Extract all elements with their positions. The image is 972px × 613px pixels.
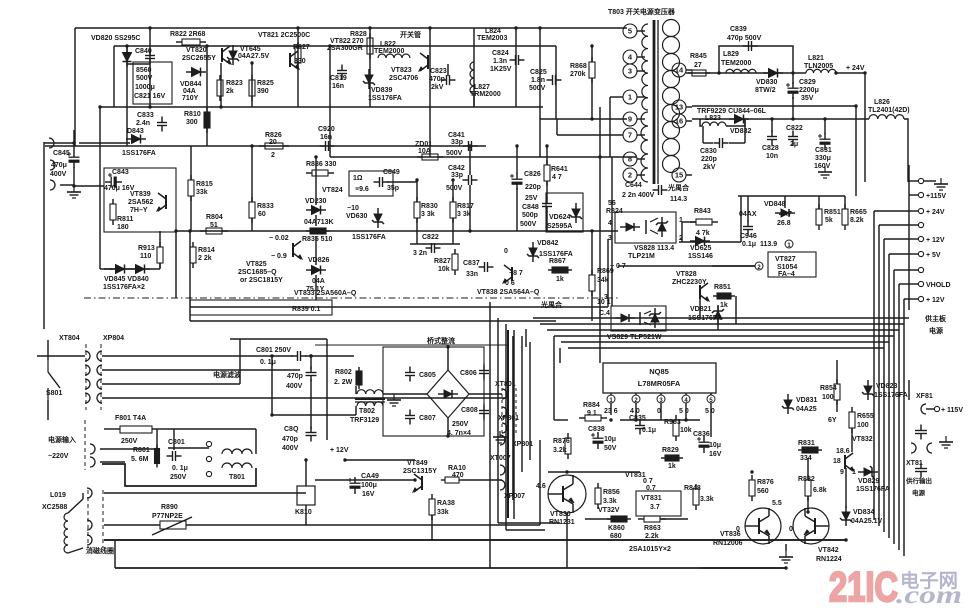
svg-text:T801: T801: [229, 474, 245, 481]
wire: [792, 73, 794, 84]
wire: [554, 419, 568, 421]
wire br v0: [489, 302, 491, 568]
label C826: [524, 171, 541, 202]
label VT831: [641, 495, 662, 511]
wire r851b col: [735, 296, 737, 324]
resistor R826: [259, 143, 289, 149]
svg-text:16n: 16n: [332, 83, 344, 90]
svg-text:04A: 04A: [183, 88, 196, 95]
wire: [818, 196, 820, 209]
choke pins: [206, 441, 211, 476]
svg-text:+ 24V: + 24V: [926, 209, 945, 216]
ground XP801: [493, 431, 507, 443]
wire bus v0: [873, 211, 875, 520]
junction: [854, 104, 857, 107]
label +24V: [846, 65, 865, 72]
label VD624: [547, 214, 572, 230]
svg-text:160V: 160V: [814, 163, 831, 170]
wire bus v2: [883, 239, 885, 532]
wire: [744, 119, 746, 143]
svg-text:500V: 500V: [446, 185, 463, 192]
svg-text:VT825: VT825: [246, 261, 267, 268]
junction: [314, 155, 317, 158]
wire long bottom 540: [104, 539, 846, 541]
wire: [539, 440, 541, 525]
resistor R851r: [816, 204, 822, 230]
svg-text:C805: C805: [419, 372, 436, 379]
transistor VT820: [222, 46, 231, 64]
wire: [159, 231, 161, 247]
svg-text:C821 16V: C821 16V: [134, 93, 165, 100]
capacitor C822b: [426, 243, 441, 253]
capacitor C825: [547, 75, 562, 85]
svg-text:3.2k: 3.2k: [553, 447, 567, 454]
wire 12V: [315, 344, 508, 346]
wire: [591, 291, 593, 321]
label VT827: [775, 256, 797, 278]
resistor R823: [217, 75, 223, 101]
ground C831: [818, 166, 832, 178]
svg-text:C.4: C.4: [599, 310, 610, 317]
capacitor C830: [714, 138, 729, 148]
label VS829: [607, 334, 662, 341]
svg-text:270k: 270k: [570, 71, 586, 78]
capacitor C846: [743, 221, 753, 236]
resistor RA38: [429, 494, 435, 520]
resistor R913: [157, 242, 163, 268]
label VD625: [688, 245, 713, 260]
diode VD839 zener: [363, 69, 375, 89]
wire: [104, 268, 160, 270]
wire bus y119 right: [540, 118, 627, 120]
ground terminal: [924, 178, 948, 190]
bridge diode: [438, 390, 458, 398]
label L826: [868, 99, 910, 114]
svg-text:L821: L821: [808, 55, 824, 62]
svg-text:2SA1015Y×2: 2SA1015Y×2: [629, 546, 671, 553]
label R876c: [757, 479, 774, 495]
svg-text:TEM2000: TEM2000: [374, 48, 404, 55]
wire c843 col: [99, 146, 101, 269]
junction: [823, 117, 826, 120]
label T802: [350, 408, 379, 424]
wire: [516, 188, 518, 231]
label R860: [608, 525, 625, 540]
label VD839: [368, 87, 402, 102]
IC NQ85 pins: [607, 393, 715, 404]
wire: [591, 231, 593, 275]
capacitor C644: [653, 185, 668, 195]
label CA49: [361, 473, 379, 498]
svg-text:VD830: VD830: [756, 79, 778, 86]
resistor R655: [849, 407, 855, 433]
wire: [206, 46, 208, 146]
junction: [72, 184, 75, 187]
label 220V: [48, 453, 69, 460]
svg-text:C644: C644: [625, 182, 642, 189]
transistor VT838: [503, 265, 512, 283]
wire: [555, 46, 557, 119]
transformer T803 pin 14: [672, 63, 692, 77]
junction: [538, 26, 541, 29]
junction: [148, 26, 151, 29]
label VD848 vals: [739, 211, 792, 227]
diode VD840: [130, 265, 150, 274]
wire bus y321: [190, 320, 556, 322]
svg-text:270: 270: [352, 38, 364, 45]
svg-text:VD630: VD630: [346, 213, 368, 220]
svg-text:C801: C801: [168, 439, 185, 446]
svg-text:R884: R884: [583, 402, 600, 409]
wire long bottom: [115, 567, 786, 569]
wire: [297, 28, 299, 107]
transformer T802: [355, 390, 385, 406]
svg-text:1SS176FA: 1SS176FA: [856, 486, 890, 493]
svg-text:0: 0: [789, 526, 793, 533]
junction: [309, 354, 312, 357]
capacitor C824: [510, 55, 525, 65]
capacitor C839: [743, 41, 758, 51]
label R854: [820, 385, 837, 401]
svg-text:− 0.9: − 0.9: [271, 253, 287, 260]
svg-text:180: 180: [117, 224, 129, 231]
label VD826: [306, 257, 330, 293]
diode VD820: [123, 47, 132, 67]
label L822: [374, 41, 404, 55]
wire: [785, 544, 787, 551]
wire: [908, 380, 910, 400]
label R801: [131, 447, 150, 463]
svg-text:RN12006: RN12006: [713, 540, 743, 547]
label vals vt831: [643, 478, 656, 492]
connector mains dashed: [84, 420, 86, 470]
junction: [343, 458, 346, 461]
junction: [250, 61, 253, 64]
label C845: [50, 150, 70, 178]
resistor R822: [176, 39, 206, 45]
svg-text:R890: R890: [161, 504, 178, 511]
wire stair 3: [554, 335, 894, 337]
junction: [148, 105, 151, 108]
svg-text:VT842: VT842: [818, 547, 839, 554]
svg-text:4 0: 4 0: [630, 408, 640, 415]
label VD630 vals: [353, 175, 369, 193]
label C920: [318, 126, 335, 141]
svg-text:T803 开关电源变压器: T803 开关电源变压器: [608, 7, 676, 16]
wire: [611, 157, 613, 306]
wire bus v3: [888, 254, 890, 538]
label L824: [477, 28, 507, 42]
label C838: [588, 426, 617, 452]
wire bus h3: [889, 253, 909, 255]
svg-text:VT827: VT827: [775, 256, 796, 263]
label VT825: [238, 261, 283, 284]
svg-text:470p: 470p: [287, 373, 303, 380]
svg-text:1.3n: 1.3n: [493, 58, 507, 65]
transistor VT825: [293, 241, 302, 259]
label C825: [529, 69, 547, 92]
wire: [37, 355, 85, 357]
capacitor C807: [405, 410, 415, 425]
resistor R843: [690, 219, 718, 225]
svg-text:16V: 16V: [362, 491, 375, 498]
resistor R827b: [452, 249, 458, 275]
wire: [473, 28, 475, 107]
svg-text:R848: R848: [684, 485, 701, 492]
svg-text:3 3k: 3 3k: [421, 211, 435, 218]
wire: [844, 196, 846, 209]
junction: [565, 470, 568, 473]
wire pin1 stub: [610, 96, 623, 98]
label C8Q1: [286, 373, 303, 390]
label R913: [138, 245, 155, 260]
wire bridge out: [469, 393, 502, 395]
label L019: [42, 492, 67, 511]
connector pins left: [49, 138, 55, 190]
diode VD830: [763, 69, 783, 78]
svg-text:D843: D843: [127, 128, 144, 135]
label R833: [257, 203, 274, 218]
svg-text:S2595A: S2595A: [547, 223, 572, 230]
svg-text:R913: R913: [138, 245, 155, 252]
label R831: [798, 440, 850, 462]
svg-text:+115V: +115V: [926, 193, 946, 200]
connector mains pins: [90, 444, 95, 467]
svg-text:R811: R811: [117, 216, 133, 223]
diode D843: [126, 135, 146, 144]
svg-text:5 0: 5 0: [679, 408, 689, 415]
svg-text:VT832: VT832: [852, 436, 873, 443]
svg-text:0 7: 0 7: [643, 478, 653, 485]
diode VD230: [306, 206, 326, 215]
thermistor R890: [152, 517, 192, 535]
svg-text:8.2k: 8.2k: [850, 217, 864, 224]
resistor R854: [834, 379, 840, 405]
svg-text:光禺合: 光禺合: [540, 300, 563, 309]
label C830: [700, 148, 717, 171]
svg-text:VD821: VD821: [690, 306, 712, 313]
VS828 pin labels: [608, 217, 683, 242]
svg-text:R876: R876: [553, 438, 570, 445]
wire nq85 feed2: [553, 336, 555, 420]
junction: [863, 71, 866, 74]
resistor R641: [544, 160, 550, 186]
svg-text:VT831: VT831: [641, 495, 662, 502]
svg-text:470p 500V: 470p 500V: [727, 35, 762, 42]
svg-text:5: 5: [628, 26, 632, 35]
label VD630: [346, 205, 368, 220]
svg-text:16: 16: [675, 116, 683, 125]
svg-text:500V: 500V: [136, 75, 153, 82]
label 113.9: [760, 240, 793, 249]
svg-text:3 3k: 3 3k: [457, 211, 471, 218]
capacitor C8Q2: [306, 427, 317, 442]
svg-text:VS829 TLP521W: VS829 TLP521W: [607, 334, 662, 341]
svg-text:R843: R843: [694, 208, 711, 215]
terminal nc: [909, 222, 924, 227]
junction: [750, 470, 753, 473]
wire: [712, 265, 755, 267]
wire: [452, 180, 454, 202]
label photocoupler: [667, 183, 690, 203]
svg-text:51: 51: [210, 222, 218, 229]
svg-text:ZD01: ZD01: [415, 141, 432, 148]
wire: [729, 142, 745, 144]
wire: [824, 119, 826, 134]
wire vd821 col: [717, 306, 719, 330]
svg-text:R845: R845: [690, 53, 707, 60]
resistor R856: [595, 483, 601, 509]
svg-text:34k: 34k: [597, 277, 609, 284]
svg-text:R804: R804: [206, 214, 223, 221]
label NQ85: [638, 367, 681, 388]
transistor VT849: [413, 474, 422, 492]
capacitor C842: [463, 175, 478, 185]
diode VD645: [227, 45, 239, 65]
svg-text:R815: R815: [196, 181, 213, 188]
label R827: [293, 44, 310, 65]
wire: [73, 167, 75, 186]
resistor R814: [190, 242, 196, 268]
junction: [791, 117, 794, 120]
svg-text:18: 18: [833, 458, 841, 465]
svg-text:L829: L829: [723, 51, 739, 58]
wire stair 5: [568, 347, 884, 349]
svg-text:R826: R826: [265, 132, 282, 139]
wire: [126, 46, 128, 146]
svg-text:9 1: 9 1: [587, 410, 597, 417]
label R839: [292, 306, 321, 313]
label VD829: [856, 478, 890, 493]
svg-text:0 6: 0 6: [505, 280, 515, 287]
wire bus h4: [894, 269, 909, 271]
label VT821: [258, 32, 310, 39]
svg-text:FA–4: FA–4: [778, 271, 795, 278]
wire: [190, 196, 192, 231]
diode VD831: [782, 394, 794, 414]
optocoupler VS829 internals: [615, 308, 661, 328]
svg-text:4.6: 4.6: [536, 483, 546, 490]
diode VD834 zener: [840, 506, 852, 526]
resistor R665: [842, 204, 848, 230]
label R810: [184, 111, 201, 126]
svg-text:VD845 VD840: VD845 VD840: [104, 276, 149, 283]
resistor R963: [673, 415, 679, 441]
svg-text:04A: 04A: [312, 278, 325, 285]
wire: [747, 196, 749, 222]
svg-text:RA10: RA10: [448, 465, 466, 472]
diode VD832: [729, 115, 749, 124]
svg-text:330: 330: [294, 58, 306, 65]
label C835: [629, 415, 656, 434]
svg-text:VT821 2C2500C: VT821 2C2500C: [258, 32, 310, 39]
wire: [447, 418, 449, 436]
svg-text:L826: L826: [874, 99, 890, 106]
junction: [174, 229, 177, 232]
capacitor C808: [479, 405, 489, 420]
wire: [851, 428, 853, 452]
svg-text:50V: 50V: [604, 445, 617, 452]
label R851b: [714, 284, 731, 309]
label R641: [551, 166, 568, 181]
svg-text:100: 100: [822, 394, 834, 401]
svg-text:− 0.02: − 0.02: [269, 235, 289, 242]
wire: [383, 393, 427, 395]
label XT804: [59, 335, 124, 342]
transistor VT836 npn: [745, 508, 781, 544]
svg-text:C835: C835: [629, 415, 646, 422]
svg-text:+ 12V: + 12V: [330, 447, 349, 454]
label L821: [804, 55, 833, 70]
wire L823 loop: [700, 119, 702, 126]
capacitor C831 electrolytic: [818, 133, 831, 150]
junction: [590, 229, 593, 232]
diode VD845: [110, 265, 130, 274]
label VT830: [549, 511, 575, 526]
capacitor C826: [510, 173, 523, 190]
label XP007: [504, 493, 525, 500]
wire: [255, 429, 257, 454]
svg-text:≡9.6: ≡9.6: [355, 186, 369, 193]
svg-text:光禺合: 光禺合: [667, 183, 690, 192]
svg-text:4 7: 4 7: [552, 174, 562, 181]
svg-text:3.3k: 3.3k: [603, 498, 617, 505]
connector degauss dashed: [87, 488, 103, 548]
svg-text:2μ: 2μ: [790, 141, 798, 148]
svg-text:1000μ: 1000μ: [135, 84, 155, 91]
wire: [546, 211, 548, 231]
wire bus v5: [898, 284, 900, 550]
wire: [610, 403, 612, 415]
wire: [771, 119, 773, 132]
svg-text:27: 27: [694, 62, 702, 69]
diode VD848: [775, 209, 795, 217]
junction: [219, 105, 222, 108]
resistor R845: [688, 70, 710, 76]
wire: [855, 106, 857, 196]
diode VD624 zener: [570, 203, 582, 223]
label R884: [583, 402, 600, 417]
junction: [634, 418, 637, 421]
wire bus h2: [884, 238, 909, 240]
wire: [447, 64, 449, 76]
label +12V: [330, 447, 349, 454]
connector caps XT81: [911, 425, 932, 478]
transistor VT828: [700, 283, 709, 301]
box VT827: [768, 252, 816, 277]
svg-text:C849: C849: [383, 169, 400, 176]
svg-text:VT838 2SA564A–Q: VT838 2SA564A–Q: [477, 289, 540, 296]
wire: [315, 236, 317, 265]
label VD848: [764, 201, 786, 208]
svg-text:35V: 35V: [801, 95, 814, 102]
wire: [113, 46, 115, 107]
transformer T803 pin 16: [672, 114, 692, 128]
svg-text:VD826: VD826: [308, 257, 330, 264]
wire br v4: [521, 336, 523, 472]
svg-text:TRF9229 CU844–06L: TRF9229 CU844–06L: [697, 108, 767, 115]
svg-text:R830: R830: [421, 203, 438, 210]
capacitor C840: [145, 50, 155, 65]
svg-text:400V: 400V: [50, 171, 67, 178]
wire L823 loop2: [726, 119, 745, 126]
wire br v1: [497, 318, 499, 523]
wire: [585, 518, 611, 520]
label VT838: [477, 289, 540, 296]
label C837: [463, 260, 480, 278]
label VD842: [537, 240, 573, 258]
wire vs828 out: [679, 241, 741, 243]
